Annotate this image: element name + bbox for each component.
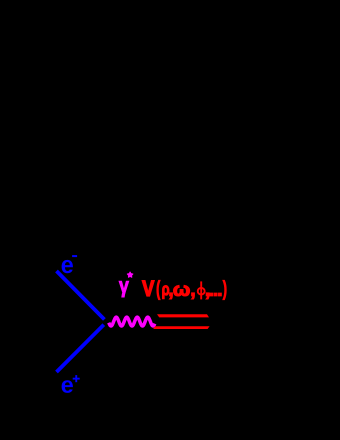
dot 2 — [214, 293, 217, 296]
photon wavy line (gamma*) — [109, 317, 155, 326]
glyph rho — [162, 286, 169, 299]
comma 1 — [170, 293, 173, 299]
positron line e+ (incoming, from lower left to vertex) — [57, 325, 104, 372]
label V(rho,omega,phi,...) vector mesons — [142, 281, 226, 300]
dot 3 — [218, 293, 221, 296]
label e+ (positron) — [62, 380, 73, 393]
superscript minus of e- — [72, 255, 77, 257]
glyph omega — [174, 285, 190, 295]
comma 2 — [192, 293, 195, 299]
glyph V — [142, 281, 154, 296]
vector meson double line (top) — [157, 314, 209, 317]
electron line e- (incoming, from upper left to vertex) — [57, 271, 105, 319]
label e- (electron) — [62, 260, 73, 273]
glyph ) — [223, 281, 226, 300]
comma 3 — [206, 293, 209, 299]
vector meson double line (bottom) — [153, 326, 209, 329]
label gamma (virtual photon) — [119, 281, 129, 297]
superscript plus of e+ — [73, 375, 80, 382]
dot 1 — [210, 293, 213, 296]
superscript star of gamma — [127, 272, 133, 277]
glyph ( — [157, 281, 160, 300]
glyph phi — [198, 281, 205, 299]
